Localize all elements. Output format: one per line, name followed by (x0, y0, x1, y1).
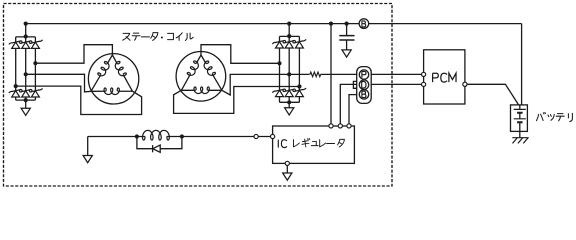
wire phase row2 right (222, 74, 289, 95)
wire left rectifier columns (16, 48, 36, 90)
IC regulator terminal 1 (329, 124, 333, 128)
junction B+ bus left (24, 22, 28, 26)
label IC of IC regulator (278, 140, 287, 148)
rotor field coil L1 (142, 130, 169, 140)
junction field coil right (180, 134, 184, 138)
terminal letters (362, 21, 366, 98)
IC regulator U1 box (273, 126, 355, 163)
resistor R1 (310, 72, 321, 77)
capacitor ground stem (346, 40, 348, 50)
junction node U right (277, 61, 281, 65)
wire right rectifier columns (280, 48, 300, 90)
wire phase row3 right (174, 87, 300, 114)
rectifier diodes D8-D10 right top bank (276, 42, 284, 48)
flyback diode D7 (152, 145, 154, 152)
rotor field wire (88, 136, 273, 138)
label battery katakana (537, 112, 573, 121)
connector terminal D circle (359, 80, 368, 89)
wire P row to PCM (371, 73, 424, 75)
ground rotor field (83, 156, 92, 163)
wire right bus drop to battery (521, 24, 523, 105)
battery BT1 cells (514, 109, 526, 118)
junction node W left (14, 84, 18, 88)
label IC regulator katakana (293, 138, 344, 147)
rectifier diodes D1-D3 left top bank (12, 42, 20, 48)
PCM terminal P (422, 72, 426, 76)
capacitor C1 (339, 36, 354, 40)
wire phase row1 left (35, 45, 112, 64)
label stator coil katakana (123, 33, 193, 41)
wire phase row2 left (26, 74, 91, 92)
rotor field ground stem (87, 137, 89, 156)
dashed alternator boundary (4, 4, 393, 187)
rectifier diodes D4-D6 left bottom bank (12, 91, 20, 97)
rectifier diodes D11-D13 right bottom bank (276, 90, 284, 96)
IC regulator terminal E (285, 161, 289, 165)
connector pill (357, 67, 372, 104)
wire stator pulse to resistor R1 (289, 73, 309, 75)
junction node V right (287, 72, 291, 76)
IC regulator terminal 2 (338, 124, 342, 128)
junction right rectifier top (287, 34, 291, 38)
wire B terminal to IC regulator (349, 95, 357, 124)
wire D terminal to IC regulator (340, 84, 357, 124)
PCM terminal D (422, 82, 426, 86)
IC regulator terminal F (271, 134, 275, 138)
junction node U left (33, 61, 37, 65)
junction left rectifier ground bus (24, 98, 28, 102)
label PCM (433, 73, 456, 82)
junction B+ bus capacitor (345, 22, 349, 26)
PCM U2 box (424, 50, 465, 104)
junction right rectifier ground bus (287, 100, 291, 104)
terminal B circle (359, 19, 369, 29)
connector terminal P circle (359, 70, 368, 79)
junction B+ bus right rectifier (287, 22, 291, 26)
wire phase row1 right (201, 45, 280, 64)
wire D row to PCM (371, 83, 424, 85)
wire PCM output to battery (465, 84, 519, 105)
IC regulator terminal 3 (347, 124, 351, 128)
wire left rectifier top feed (16, 24, 36, 42)
diode bank symbols (9, 39, 306, 97)
wire right rectifier bottom bus (280, 97, 300, 108)
stator coil T2 delta winding (181, 55, 222, 90)
junction field coil left (135, 134, 139, 138)
stator coil T2 circle (176, 52, 226, 102)
ground IC regulator (283, 173, 292, 180)
junction node V left (24, 72, 28, 76)
ground left rectifier (21, 108, 30, 115)
PCM output terminal (463, 82, 467, 86)
battery chassis ground (512, 138, 528, 144)
wire phase row3 left (16, 86, 142, 114)
junction left rectifier top (24, 34, 28, 38)
junction node W right (297, 84, 301, 88)
wire capacitor C1 feed (346, 24, 348, 36)
wire IC regulator feed from bus (330, 24, 332, 124)
ground right rectifier (285, 108, 294, 115)
battery BT1 box (511, 105, 528, 131)
wire left rectifier bottom bus (16, 97, 36, 108)
stator coil T1 delta winding (91, 55, 132, 91)
junction B+ bus IC feed (329, 22, 333, 26)
flyback diode branch (137, 137, 182, 149)
wire resistor to P terminal (321, 73, 357, 75)
stator coil T1 circle (88, 54, 138, 104)
ground capacitor (342, 50, 351, 57)
wire right rectifier top feed (280, 24, 300, 42)
connector terminal B circle (359, 90, 368, 99)
IC regulator ground stem (286, 165, 288, 173)
slip ring brush terminal (254, 134, 258, 138)
connector key tab (353, 81, 356, 88)
wire B+ bus (26, 23, 522, 25)
